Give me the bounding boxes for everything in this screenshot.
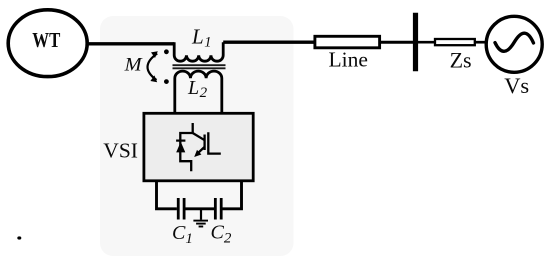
svg-text:VSI: VSI [103,138,138,162]
svg-text:WT: WT [32,28,60,52]
svg-text:Line: Line [328,47,367,71]
svg-text:M: M [124,55,143,76]
svg-text:Vs: Vs [504,73,529,98]
svg-text:Zs: Zs [450,48,472,73]
